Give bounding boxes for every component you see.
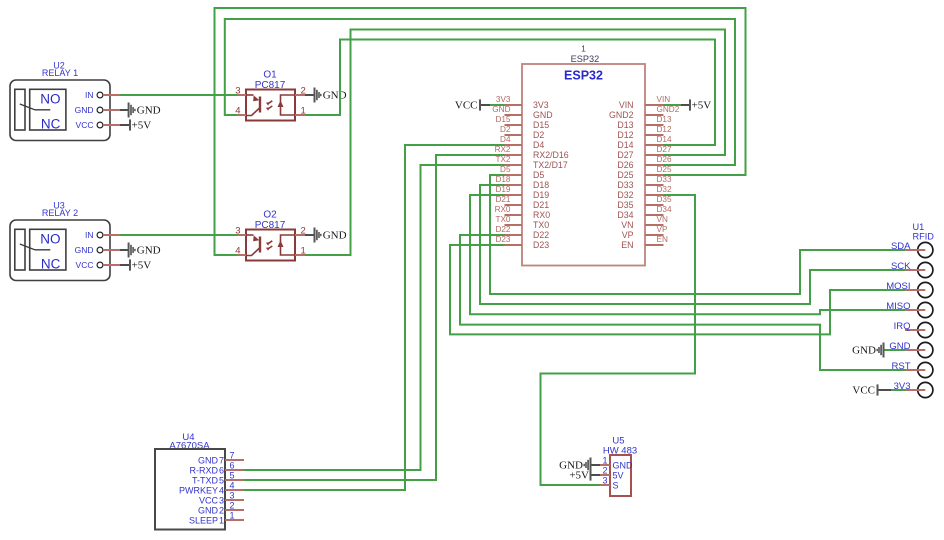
wire O1 pin4 to ESP32 D26 xyxy=(225,19,735,165)
VCC power U1 xyxy=(852,384,877,396)
svg-text:7: 7 xyxy=(219,455,224,465)
pin U1 GND xyxy=(889,341,933,358)
svg-text:D25: D25 xyxy=(657,165,672,174)
svg-text:D27: D27 xyxy=(657,145,672,154)
svg-text:VCC: VCC xyxy=(852,385,875,397)
svg-text:2: 2 xyxy=(219,505,224,515)
svg-text:EN: EN xyxy=(621,240,633,250)
svg-text:GND: GND xyxy=(75,105,94,115)
svg-text:D13: D13 xyxy=(617,120,633,130)
wire O1 pin2 to ground xyxy=(305,94,315,96)
wire ESP32 VIN net xyxy=(664,104,681,106)
svg-text:SLEEP: SLEEP xyxy=(189,515,218,525)
pin O1 pin4 stub xyxy=(237,114,246,116)
svg-text:D34: D34 xyxy=(657,205,672,214)
ground O2 xyxy=(315,228,347,243)
+5V power U2 xyxy=(130,119,151,131)
svg-text:GND: GND xyxy=(533,110,553,120)
svg-text:EN: EN xyxy=(657,235,668,244)
svg-text:D5: D5 xyxy=(500,165,511,174)
wire ESP32 D19 to U1 MISO xyxy=(470,195,905,314)
svg-text:GND: GND xyxy=(198,505,219,515)
svg-text:5: 5 xyxy=(219,475,224,485)
pin ESP32 D4 (left) xyxy=(500,135,522,145)
wire ESP32 VIN to +5V xyxy=(681,104,690,106)
svg-text:D23: D23 xyxy=(533,240,549,250)
svg-text:D14: D14 xyxy=(617,140,633,150)
pin U1 IRQ xyxy=(894,321,933,338)
svg-text:D33: D33 xyxy=(617,180,633,190)
pin O1 pin3 stub xyxy=(237,94,246,96)
svg-text:VCC: VCC xyxy=(199,495,219,505)
wire U1 3V3 net xyxy=(891,389,905,391)
svg-text:3: 3 xyxy=(230,491,235,501)
wire ESP32 3V3 net xyxy=(490,104,505,106)
svg-text:1: 1 xyxy=(602,455,607,465)
wire U3 GND to ground xyxy=(120,249,129,251)
svg-text:S: S xyxy=(613,480,619,490)
wire ESP32 D32 to U5 S xyxy=(541,195,696,485)
svg-text:RFID: RFID xyxy=(913,232,935,242)
pin O2 pin1 stub xyxy=(295,254,305,256)
pin U1 SCK xyxy=(891,261,933,278)
pin ESP32 D19 (left) xyxy=(495,185,522,195)
pin ESP32 RX0 (left) xyxy=(495,205,522,215)
pin U1 3V3 xyxy=(894,381,933,398)
svg-text:PWRKEY: PWRKEY xyxy=(179,485,218,495)
svg-text:GND2: GND2 xyxy=(609,110,634,120)
svg-text:IN: IN xyxy=(85,90,94,100)
svg-text:GND2: GND2 xyxy=(657,105,680,114)
ground U1 xyxy=(852,343,883,358)
svg-text:D4: D4 xyxy=(500,135,511,144)
svg-text:T-TXD: T-TXD xyxy=(192,475,218,485)
svg-text:D27: D27 xyxy=(617,150,633,160)
pin ESP32 D15 (left) xyxy=(495,115,522,125)
pin O2 pin2 stub xyxy=(295,234,305,236)
pin U4 2 GND xyxy=(225,501,244,511)
pin ESP32 D23 (left) xyxy=(495,235,522,245)
svg-text:1: 1 xyxy=(581,44,586,54)
svg-text:TX2/D17: TX2/D17 xyxy=(533,160,568,170)
svg-text:+5V: +5V xyxy=(569,470,589,482)
svg-text:GND: GND xyxy=(613,460,634,470)
svg-text:VIN: VIN xyxy=(657,95,671,104)
pin U4 1 SLEEP xyxy=(225,511,244,521)
svg-text:3: 3 xyxy=(219,495,224,505)
svg-text:3: 3 xyxy=(602,475,607,485)
ESP32 module U-ESP32 xyxy=(522,44,645,266)
pin ESP32 3V3 (left) xyxy=(496,95,522,105)
pin ESP32 D13 (right) xyxy=(645,115,672,125)
pin ESP32 D26 (right) xyxy=(645,155,672,165)
svg-text:VP: VP xyxy=(622,230,634,240)
svg-text:RX0: RX0 xyxy=(533,210,550,220)
svg-text:5V: 5V xyxy=(613,470,624,480)
svg-text:6: 6 xyxy=(219,465,224,475)
svg-text:3V3: 3V3 xyxy=(533,100,549,110)
wire O2 pin2 to ground xyxy=(305,234,315,236)
svg-text:RELAY 2: RELAY 2 xyxy=(42,208,78,218)
svg-text:NC: NC xyxy=(41,257,61,272)
pin U1 MOSI xyxy=(886,281,933,298)
svg-text:2: 2 xyxy=(602,465,607,475)
pin U5 3 S xyxy=(600,475,610,485)
+5V power U3 xyxy=(130,259,151,271)
svg-text:GND: GND xyxy=(137,105,161,117)
svg-text:D25: D25 xyxy=(617,170,633,180)
svg-text:D26: D26 xyxy=(617,160,633,170)
svg-text:D19: D19 xyxy=(495,185,510,194)
ground U2 xyxy=(129,103,161,118)
wire RELAY2 IN to O2 pin3 xyxy=(120,234,237,236)
pin ESP32 GND (left) xyxy=(492,105,522,115)
pin ESP32 D14 (right) xyxy=(645,135,672,145)
pin ESP32 D18 (left) xyxy=(495,175,522,185)
svg-text:GND: GND xyxy=(323,230,347,242)
pin O2 pin4 stub xyxy=(237,254,246,256)
svg-text:D4: D4 xyxy=(533,140,544,150)
svg-text:VIN: VIN xyxy=(619,100,634,110)
svg-text:4: 4 xyxy=(230,481,235,491)
pin U3 IN stub xyxy=(103,234,120,236)
wire U5 5V to +5V xyxy=(591,474,600,476)
svg-text:D12: D12 xyxy=(617,130,633,140)
optocoupler O1 PC817 xyxy=(235,70,306,121)
pin ESP32 D12 (right) xyxy=(645,125,672,135)
wire ESP32 3V3 to VCC xyxy=(481,104,490,106)
pin O1 pin2 stub xyxy=(295,94,305,96)
wire U3 VCC to +5V xyxy=(120,264,130,266)
pin ESP32 D25 (right) xyxy=(645,165,672,175)
pin ESP32 VIN (right) xyxy=(645,95,670,105)
pin ESP32 D21 (left) xyxy=(495,195,522,205)
+5V power U5 xyxy=(569,469,590,481)
svg-text:D35: D35 xyxy=(617,200,633,210)
pin U4 4 PWRKEY xyxy=(225,481,244,491)
ground U5 xyxy=(559,458,590,473)
pin ESP32 RX2 (left) xyxy=(495,145,522,155)
pin U4 7 GND xyxy=(225,451,244,461)
relay module U3 xyxy=(10,201,110,281)
svg-text:VN: VN xyxy=(621,220,633,230)
svg-text:5: 5 xyxy=(230,471,235,481)
pin U1 RST xyxy=(892,361,933,378)
wire O1 pin1 to ESP32 D14 xyxy=(305,40,715,146)
svg-text:GND: GND xyxy=(198,455,219,465)
pin U2 VCC stub xyxy=(103,124,120,126)
pin ESP32 EN (right) xyxy=(645,235,668,245)
pin ESP32 TX2 (left) xyxy=(495,155,522,165)
svg-text:D19: D19 xyxy=(533,190,549,200)
svg-text:D21: D21 xyxy=(495,195,510,204)
svg-text:NC: NC xyxy=(41,117,61,132)
svg-text:IN: IN xyxy=(85,230,94,240)
pin ESP32 D32 (right) xyxy=(645,185,672,195)
pin U5 2 5V xyxy=(600,465,610,475)
svg-text:D32: D32 xyxy=(617,190,633,200)
pin O2 pin3 stub xyxy=(237,234,246,236)
svg-text:2: 2 xyxy=(230,501,235,511)
svg-text:7: 7 xyxy=(230,451,235,461)
svg-text:D18: D18 xyxy=(495,175,510,184)
svg-text:ESP32: ESP32 xyxy=(564,69,603,83)
svg-text:D14: D14 xyxy=(657,135,672,144)
optocoupler O2 PC817 xyxy=(235,210,306,261)
ground O1 xyxy=(315,88,347,103)
svg-text:O2: O2 xyxy=(263,210,277,221)
svg-text:D32: D32 xyxy=(657,185,672,194)
pin ESP32 D34 (right) xyxy=(645,205,672,215)
wire ESP32 D5 to U1 SDA xyxy=(490,175,905,294)
svg-text:RX2: RX2 xyxy=(495,145,511,154)
pin U3 GND stub xyxy=(103,249,120,251)
pin ESP32 D35 (right) xyxy=(645,195,672,205)
RFID header U1 xyxy=(913,222,935,242)
svg-text:NO: NO xyxy=(40,232,60,247)
pin ESP32 D22 (left) xyxy=(495,225,522,235)
wire U5 GND to ground xyxy=(591,464,600,466)
svg-text:R-RXD: R-RXD xyxy=(190,465,219,475)
svg-text:GND: GND xyxy=(137,245,161,257)
svg-text:NO: NO xyxy=(40,92,60,107)
svg-text:VCC: VCC xyxy=(76,120,94,130)
pin ESP32 TX0 (left) xyxy=(495,215,522,225)
svg-text:TX2: TX2 xyxy=(495,155,510,164)
svg-text:D18: D18 xyxy=(533,180,549,190)
wire U1 GND net xyxy=(884,349,905,351)
relay module U2 xyxy=(10,61,110,141)
wire U2 VCC to +5V xyxy=(120,124,130,126)
pin U2 IN stub xyxy=(103,94,120,96)
svg-text:RX2/D16: RX2/D16 xyxy=(533,150,569,160)
svg-text:D23: D23 xyxy=(495,235,510,244)
svg-text:D2: D2 xyxy=(500,125,511,134)
pin ESP32 D5 (left) xyxy=(500,165,522,175)
svg-text:1: 1 xyxy=(230,511,235,521)
svg-text:D21: D21 xyxy=(533,200,549,210)
svg-text:D26: D26 xyxy=(657,155,672,164)
svg-text:TX0: TX0 xyxy=(533,220,549,230)
pin ESP32 D33 (right) xyxy=(645,175,672,185)
wire ESP32 D18 to U1 SCK xyxy=(480,185,905,304)
svg-text:+5V: +5V xyxy=(692,100,712,112)
pin U1 SDA xyxy=(891,241,933,258)
svg-text:D15: D15 xyxy=(495,115,510,124)
pin U1 MISO xyxy=(886,301,933,318)
wire ESP32 D22 to U1 RST xyxy=(460,235,905,370)
ground U3 xyxy=(129,243,161,258)
pin U4 6 R-RXD xyxy=(225,461,244,471)
pin U4 3 VCC xyxy=(225,491,244,501)
svg-text:VN: VN xyxy=(657,215,668,224)
wire U1 3V3 to VCC xyxy=(879,389,892,391)
pin ESP32 VP (right) xyxy=(645,225,668,235)
svg-text:ESP32: ESP32 xyxy=(571,54,600,64)
svg-text:+5V: +5V xyxy=(132,260,152,272)
wire O2 pin4 to ESP32 D25 xyxy=(215,8,746,255)
svg-text:D35: D35 xyxy=(657,195,672,204)
svg-text:6: 6 xyxy=(230,461,235,471)
pin ESP32 VN (right) xyxy=(645,215,668,225)
VCC power ESP32 xyxy=(455,99,480,111)
svg-text:VP: VP xyxy=(657,225,668,234)
wire ESP32 D4 to U4 PWRKEY xyxy=(244,145,505,490)
pin ESP32 D27 (right) xyxy=(645,145,672,155)
pin U5 1 GND xyxy=(600,455,610,465)
svg-text:VCC: VCC xyxy=(76,260,94,270)
svg-text:U1: U1 xyxy=(913,222,925,232)
svg-text:GND: GND xyxy=(852,345,876,357)
svg-text:D33: D33 xyxy=(657,175,672,184)
svg-text:D12: D12 xyxy=(657,125,672,134)
pin ESP32 GND2 (right) xyxy=(645,105,680,115)
wire U2 GND to ground xyxy=(120,109,129,111)
svg-text:D15: D15 xyxy=(533,120,549,130)
svg-text:D34: D34 xyxy=(617,210,633,220)
svg-text:4: 4 xyxy=(219,485,224,495)
svg-text:GND: GND xyxy=(75,245,94,255)
svg-text:1: 1 xyxy=(219,515,224,525)
wire O2 pin1 to ESP32 D27 xyxy=(305,30,725,256)
svg-text:TX0: TX0 xyxy=(495,215,510,224)
+5V power ESP32 xyxy=(690,99,711,111)
svg-text:D2: D2 xyxy=(533,130,544,140)
svg-text:+5V: +5V xyxy=(132,120,152,132)
svg-text:RX0: RX0 xyxy=(495,205,511,214)
svg-text:D5: D5 xyxy=(533,170,544,180)
pin U2 GND stub xyxy=(103,109,120,111)
pin ESP32 D2 (left) xyxy=(500,125,522,135)
wire ESP32 TX2 to U4 R-RXD xyxy=(244,165,505,470)
svg-text:D22: D22 xyxy=(495,225,510,234)
svg-text:D13: D13 xyxy=(657,115,672,124)
sensor module U5 HW 483 xyxy=(603,436,637,497)
pin O1 pin1 stub xyxy=(295,114,305,116)
wire ESP32 RX2 to U4 T-TXD xyxy=(244,155,505,480)
svg-text:GND: GND xyxy=(323,90,347,102)
GSM module U4 A7670SA xyxy=(155,432,225,530)
svg-text:RELAY 1: RELAY 1 xyxy=(42,68,78,78)
svg-text:GND: GND xyxy=(492,105,510,114)
pin U3 VCC stub xyxy=(103,264,120,266)
svg-text:VCC: VCC xyxy=(455,100,478,112)
wire RELAY1 IN to O1 pin3 xyxy=(120,94,237,96)
svg-text:3V3: 3V3 xyxy=(496,95,511,104)
svg-text:O1: O1 xyxy=(263,70,277,81)
pin U4 5 T-TXD xyxy=(225,471,244,481)
svg-text:IRQ: IRQ xyxy=(894,321,911,332)
wire ESP32 D23 to U1 MOSI xyxy=(450,245,905,334)
svg-text:D22: D22 xyxy=(533,230,549,240)
